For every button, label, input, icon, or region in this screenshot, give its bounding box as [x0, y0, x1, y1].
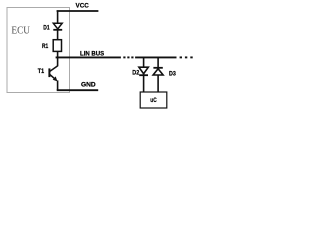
svg-text:D2: D2	[132, 69, 139, 76]
svg-text:R1: R1	[42, 43, 48, 50]
svg-text:ECU: ECU	[11, 25, 30, 37]
svg-text:T1: T1	[38, 68, 45, 75]
svg-text:uC: uC	[150, 97, 157, 104]
svg-text:D3: D3	[169, 70, 176, 77]
svg-text:LIN BUS: LIN BUS	[80, 50, 105, 57]
svg-text:VCC: VCC	[76, 3, 89, 10]
svg-text:D1: D1	[43, 25, 50, 32]
svg-text:GND: GND	[81, 82, 96, 89]
